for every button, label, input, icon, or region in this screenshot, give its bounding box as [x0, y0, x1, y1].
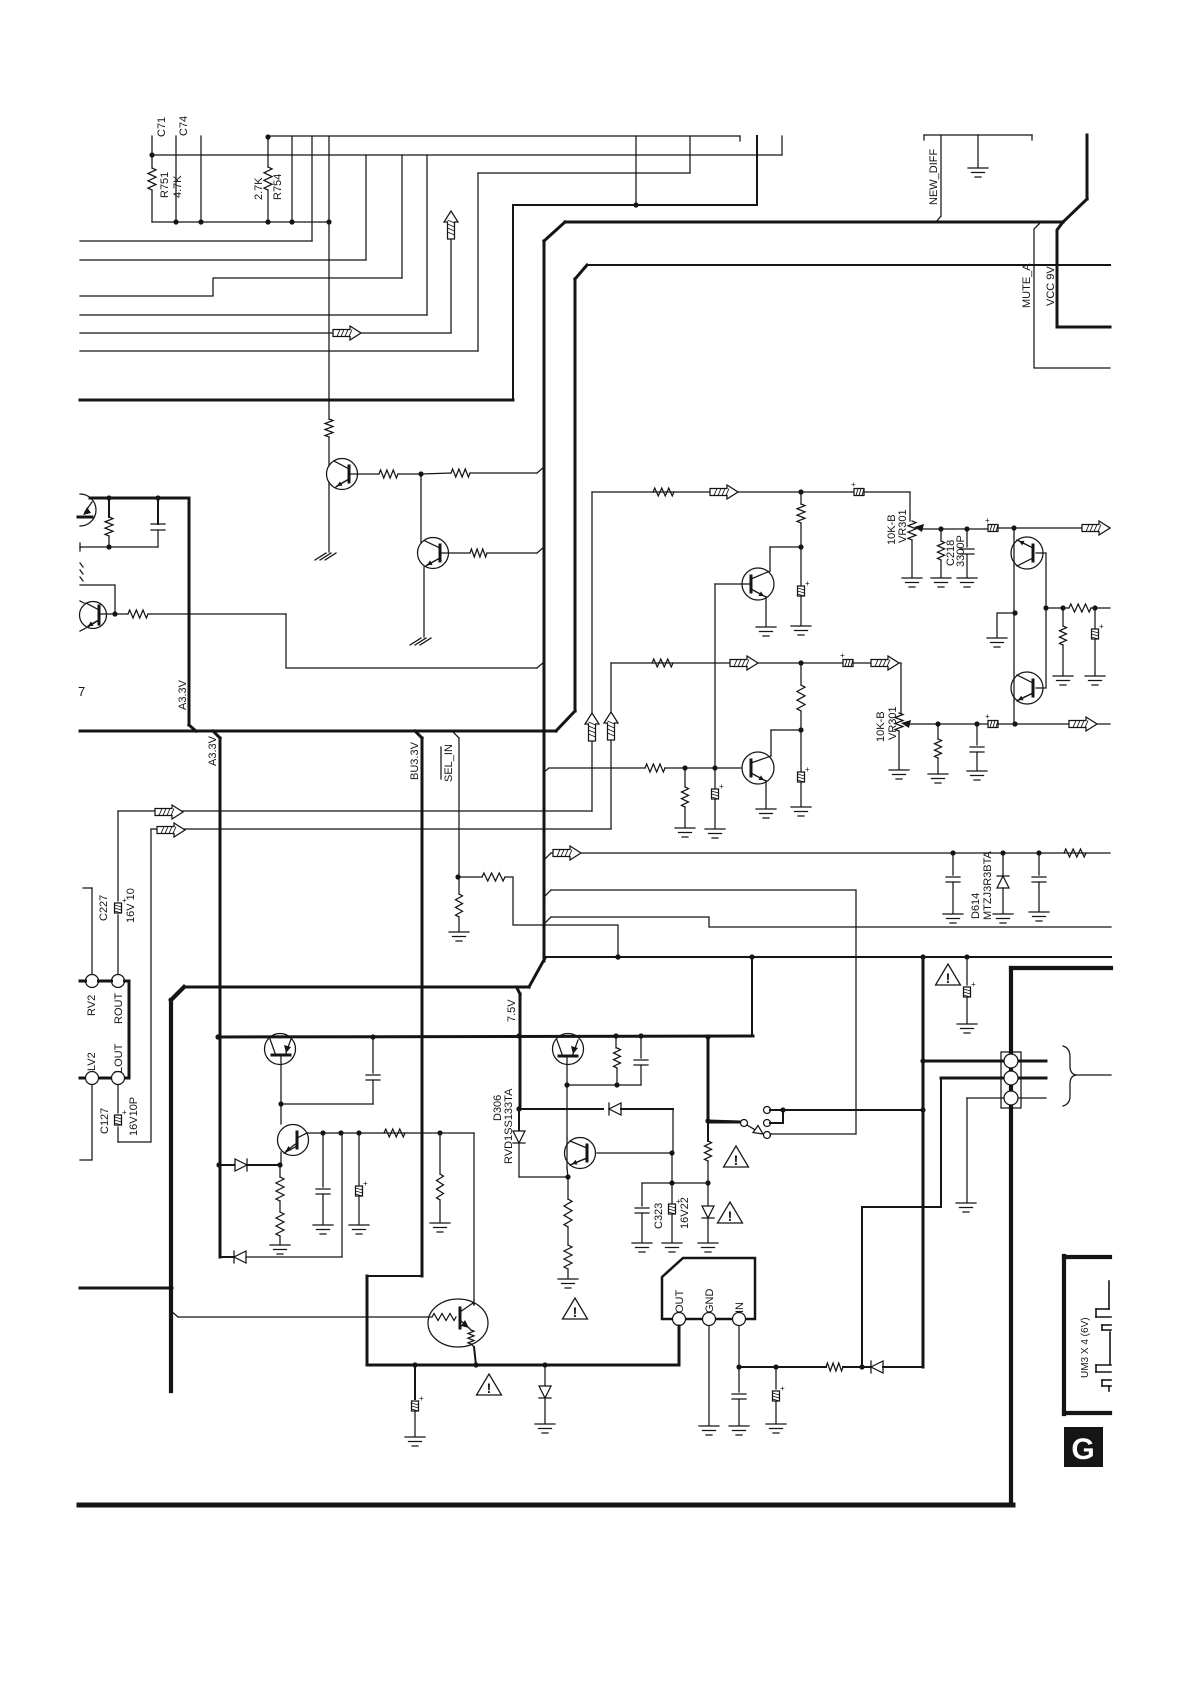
cap D614 group x953	[952, 853, 954, 875]
transistor pair vertical x1015	[1013, 528, 1015, 538]
svg-text:VR301: VR301	[897, 509, 909, 543]
ground at NEW_DIFF bar	[977, 135, 979, 168]
resistor above transistor x329	[325, 419, 333, 437]
resistor y1133	[384, 1129, 405, 1137]
wire SEL_IN from bus	[452, 731, 459, 738]
thick A3.3V bus horizontal y731	[80, 730, 556, 733]
resistor x709	[707, 1121, 709, 1141]
resistor x617	[615, 1036, 617, 1048]
wire vertical x451 with up arrow	[450, 240, 452, 333]
thick wire from top right x1087	[1086, 135, 1089, 199]
collector rail y1133	[307, 1132, 474, 1134]
emitter resistors x568	[567, 1177, 569, 1199]
pin LOUT	[112, 1072, 125, 1085]
voltage regulator IC	[662, 1258, 755, 1319]
thick diode feed y1257	[220, 1256, 234, 1258]
thick wire x367	[366, 1276, 369, 1365]
resistor at x109	[108, 498, 110, 517]
arrow output upper	[1014, 527, 1082, 529]
svg-text:A3.3V: A3.3V	[207, 735, 219, 766]
resistor R751 4.7K	[151, 155, 153, 168]
thick connector link y1078	[80, 1077, 86, 1080]
resistor chain2	[652, 659, 673, 667]
thick wire x709 down	[707, 1036, 710, 1121]
feedback wire y1085	[567, 1084, 641, 1086]
thick bus corner to x544	[544, 222, 565, 241]
bus horizontal y205	[513, 204, 757, 206]
cap to ground x977	[976, 724, 978, 745]
left bus horizontal y260	[80, 259, 366, 261]
svg-text:+: +	[805, 765, 810, 774]
wire x672 down	[671, 1153, 673, 1183]
pin GND	[703, 1313, 716, 1326]
thick wire x923	[922, 957, 925, 1367]
top bus area: capacitor lead C71x	[151, 136, 153, 155]
base wire y1153	[597, 1152, 672, 1154]
vertical x592 with up arrow	[591, 492, 593, 811]
svg-text:GND: GND	[704, 1289, 716, 1314]
transistor pass PNP a	[265, 1034, 296, 1065]
transistor PNP x293	[280, 1104, 282, 1124]
resistor R754 2.7K	[265, 134, 270, 139]
wire y173 to top	[478, 172, 690, 174]
svg-text:+: +	[122, 1108, 127, 1117]
top bus wire y136	[268, 135, 740, 137]
pin RV2	[83, 887, 92, 889]
capacitor at x158	[157, 498, 159, 524]
SEL_IN series resistor	[459, 876, 482, 878]
svg-text:3300P: 3300P	[955, 535, 967, 567]
wire GND to ground	[708, 1326, 710, 1425]
wire vertical x292	[291, 137, 293, 222]
svg-text:C74: C74	[178, 116, 190, 136]
signal wire y811 from C227 to chain1	[118, 810, 592, 812]
svg-text:!: !	[573, 1304, 578, 1320]
thick A3.3V vertical x220	[219, 738, 222, 1257]
transistor driver 1	[769, 547, 771, 571]
tap to transistor base y1317	[171, 1311, 178, 1317]
driver chain2: resistor x801	[800, 663, 802, 685]
cap x415	[414, 1365, 416, 1399]
chain1 wire y492	[592, 491, 910, 493]
feedback resistor y608	[1046, 607, 1063, 609]
cap x359	[358, 1133, 360, 1185]
cap x373	[372, 1037, 374, 1073]
arrow output lower	[1014, 723, 1069, 725]
transistor pass PNP b	[553, 1034, 584, 1065]
transistor driver 2	[770, 730, 772, 756]
svg-text:R754: R754	[272, 174, 284, 200]
svg-text:7.5V: 7.5V	[506, 999, 518, 1022]
chain2 wire y663	[611, 662, 901, 664]
resistor x440	[439, 1133, 441, 1174]
diode to ground x545	[544, 1365, 546, 1386]
cap x739	[738, 1367, 740, 1392]
warning mark A	[724, 1146, 749, 1167]
ground VR301 upper	[902, 577, 922, 579]
series resistor y1367	[826, 1363, 843, 1371]
wire MUTE_A	[1034, 223, 1110, 368]
coupling cap chain2	[840, 651, 853, 667]
svg-text:+: +	[851, 480, 856, 489]
wire NEW_DIFF vertical	[940, 135, 942, 216]
resistor to ground x938	[937, 724, 939, 739]
emitter ground driver1	[765, 597, 767, 626]
left bus horizontal y351	[80, 350, 478, 352]
thick rail y1036	[218, 1036, 753, 1037]
pin OUT	[673, 1313, 686, 1326]
emitter ground branch	[997, 613, 1015, 637]
thick frame right vertical x1011	[1009, 968, 1013, 1503]
driver chain1: resistor x801	[800, 492, 802, 504]
svg-text:10K-B: 10K-B	[875, 711, 887, 742]
thick wire VCC 9V	[1057, 222, 1110, 327]
svg-text:RV2: RV2	[86, 995, 98, 1016]
svg-text:VCC 9V: VCC 9V	[1045, 266, 1057, 306]
cap 3300P plates	[966, 529, 968, 547]
svg-text:+: +	[985, 516, 990, 525]
connector P pins	[1001, 1052, 1021, 1108]
cap to ground x1095	[1094, 608, 1096, 629]
resistor chain1	[653, 488, 674, 496]
bus tap wire y853 with arrow	[544, 853, 551, 860]
wire vertical x329	[328, 137, 330, 419]
vertical x611 with up arrow	[610, 663, 612, 829]
bypass cap x801 chain2	[800, 730, 802, 771]
VR301 lower 10K-B	[900, 663, 902, 713]
brace	[1063, 1046, 1076, 1106]
VR301 upper 10K-B	[909, 492, 911, 521]
resistor y853 right	[1064, 849, 1086, 857]
arrow chain1	[710, 485, 738, 499]
wire vertical x176	[175, 136, 177, 222]
svg-text:C323: C323	[653, 1203, 665, 1229]
transistor Q at x433	[420, 474, 422, 543]
bus tap wire y890 to switch	[544, 890, 551, 897]
coupling cap chain1	[851, 480, 864, 496]
svg-text:+: +	[840, 651, 845, 660]
svg-text:16V10P: 16V10P	[128, 1097, 140, 1136]
svg-text:!: !	[487, 1380, 492, 1396]
base coupling vertical x1046	[1036, 553, 1046, 688]
svg-text:+: +	[985, 712, 990, 721]
svg-text:+: +	[719, 782, 724, 791]
switch lever	[747, 1125, 757, 1131]
thick OUT rail y1365	[367, 1364, 679, 1367]
pin LV2	[86, 1072, 99, 1085]
svg-text:16V 10: 16V 10	[125, 888, 137, 923]
svg-text:C227: C227	[98, 895, 110, 921]
wiper wire y724	[909, 723, 990, 725]
collector riser x474	[473, 1133, 475, 1300]
arrow chain2 a	[730, 656, 758, 670]
zener D614 MTZJ3R3BTA	[1002, 853, 1004, 876]
svg-text:!: !	[728, 1208, 733, 1224]
svg-text:MUTE_A: MUTE_A	[1021, 263, 1033, 308]
svg-text:D614: D614	[970, 893, 982, 919]
thick wire y1207	[862, 1206, 941, 1208]
bus bottom wire y222	[152, 221, 329, 223]
cap x323	[322, 1133, 324, 1187]
svg-text:RVD1SS133TA: RVD1SS133TA	[503, 1088, 515, 1164]
capacitor C127	[117, 1085, 119, 1113]
wire from brace	[1076, 1074, 1111, 1076]
svg-text:+: +	[363, 1179, 368, 1188]
coupling cap output lower	[985, 712, 998, 728]
thick BU3.3V vertical x422	[421, 738, 424, 1276]
capacitor C227	[117, 811, 119, 901]
svg-text:R751: R751	[159, 172, 171, 198]
wire IN rail y1367	[738, 1326, 740, 1367]
wire y1276	[367, 1275, 422, 1277]
left bus horizontal y315	[80, 314, 427, 316]
warning mark B	[718, 1202, 743, 1223]
svg-text:LV2: LV2	[86, 1052, 98, 1071]
thick switch feed y1121	[708, 1121, 740, 1122]
svg-text:+: +	[1099, 622, 1104, 631]
left bus horizontal y333 with signal arrow	[80, 332, 451, 334]
wire LV2 down	[80, 1085, 92, 1160]
chassis ground at x329	[320, 553, 331, 560]
wire x342 up	[341, 1133, 343, 1257]
cap x642	[641, 1183, 643, 1206]
cap to ground x715	[714, 768, 716, 788]
pin wire 3	[967, 1097, 1046, 1099]
wire collector y547	[770, 546, 801, 548]
svg-text:G: G	[1071, 1433, 1094, 1466]
arrow chain2 b	[871, 656, 899, 670]
warning cap branch x967	[966, 957, 968, 985]
cap C323 16V22	[671, 1183, 673, 1203]
cap C218	[940, 529, 942, 541]
emitter wire down	[423, 567, 425, 637]
chassis ground at x424	[415, 638, 426, 645]
diode x709 to ground	[707, 1183, 709, 1206]
thick bus horizontal y400	[80, 399, 513, 402]
wire vertical x478	[477, 173, 479, 351]
diode D306 RVD1SS133TA	[518, 1109, 520, 1131]
transistor Q7xx lower left	[80, 602, 107, 629]
svg-text:16V22: 16V22	[679, 1197, 691, 1229]
transistor upper PNP	[1011, 537, 1043, 569]
transistor lower PNP	[1011, 672, 1043, 704]
thick wire x862 up	[861, 1207, 863, 1367]
left bus stepped wire y296/y278	[80, 278, 402, 296]
base wire from x715	[715, 583, 751, 585]
thick box left edge x171	[169, 1000, 173, 1391]
switch wiring	[770, 1109, 783, 1111]
bus tap wire y917/y927	[544, 917, 551, 924]
svg-text:IN: IN	[734, 1302, 746, 1313]
thick box corner top left	[171, 987, 184, 1000]
continuation dashes	[80, 563, 83, 567]
thick link vertical	[128, 981, 131, 1078]
svg-text:2.7K: 2.7K	[253, 177, 265, 200]
svg-text:LOUT: LOUT	[113, 1043, 125, 1073]
thick wire 7.5V x519	[517, 988, 520, 994]
svg-text:SEL_IN: SEL_IN	[443, 744, 455, 782]
svg-text:ROUT: ROUT	[113, 993, 125, 1024]
svg-text:NEW_DIFF: NEW_DIFF	[928, 149, 940, 206]
wire step x286 y668	[286, 614, 537, 668]
svg-text:+: +	[971, 980, 976, 989]
svg-text:C127: C127	[99, 1108, 111, 1134]
coupling cap to output	[985, 516, 998, 532]
battery holder UM3 X 4	[1062, 1256, 1066, 1414]
base resistor to bus	[440, 552, 470, 554]
wire vertical x201	[200, 136, 202, 222]
feedback wire y1104	[281, 1103, 373, 1105]
wire x752 rail to y957	[751, 957, 753, 1036]
svg-text:4.7K: 4.7K	[172, 175, 184, 198]
thick frame top edge y968	[1011, 966, 1111, 970]
wire collector y730	[771, 729, 801, 731]
diode feed y1165	[220, 1164, 235, 1166]
SEL_IN shunt resistor	[458, 877, 460, 894]
thick connector link y981	[80, 980, 86, 983]
bus horizontal y265	[587, 264, 1110, 266]
wire vertical x636	[635, 136, 637, 205]
wire y547	[80, 546, 158, 548]
wire vertical x427	[426, 155, 428, 315]
svg-text:VR301: VR301	[887, 706, 899, 740]
NEW_DIFF header bar	[924, 134, 1032, 136]
diode y1367	[871, 1361, 883, 1373]
svg-text:UM3 X 4 (6V): UM3 X 4 (6V)	[1080, 1317, 1091, 1378]
base wire y614 with resistor	[99, 613, 128, 615]
thick pin wire 1	[923, 1060, 1046, 1063]
svg-text:+: +	[805, 579, 810, 588]
cap x776	[775, 1367, 777, 1389]
wire vertical x312 to y241	[311, 137, 313, 241]
pin IN	[733, 1313, 746, 1326]
thick bottom border	[79, 1503, 1013, 1508]
cap x1039	[1038, 853, 1040, 875]
pin ROUT	[112, 975, 125, 988]
svg-text:OUT: OUT	[674, 1290, 686, 1314]
wire x715 to driver1 base	[714, 584, 716, 768]
bypass cap x801 chain1	[800, 547, 802, 586]
thick pin wire 2	[941, 1077, 1046, 1080]
emitter resistors x280	[279, 1165, 281, 1177]
thick bus vertical x544	[543, 241, 546, 961]
thick wire A3.3V vertical x189	[188, 498, 191, 725]
wire LOUT to x151	[118, 829, 151, 1142]
warning mark C	[563, 1298, 588, 1319]
thick bus horizontal y222	[565, 221, 1063, 224]
transistor Q7xx partial at left edge	[80, 494, 96, 526]
emitter wire to ground	[328, 482, 330, 552]
svg-text:A3.3V: A3.3V	[177, 679, 189, 710]
digital transistor Q	[428, 1299, 488, 1347]
wire y957 long	[545, 956, 1111, 958]
wire y1183	[642, 1182, 708, 1184]
resistor to ground x685	[684, 768, 686, 787]
wire vertical x782 end	[781, 136, 783, 155]
transistor reg driver	[566, 1085, 568, 1138]
svg-text:7: 7	[78, 684, 85, 699]
transistor Q at x342	[328, 437, 330, 466]
wire y585 to transistor base	[80, 585, 115, 614]
emitter ground driver2	[765, 781, 767, 808]
wire OUT to rail	[678, 1326, 681, 1365]
base resistor chain y474	[349, 473, 379, 475]
bus vertical x757	[756, 136, 758, 205]
wire vertical x366	[365, 155, 367, 260]
wire x941 connector pin2	[940, 1078, 942, 1207]
thick box top edge y987	[184, 986, 529, 989]
diode reverse y1109	[609, 1103, 621, 1115]
top bus wire y155	[152, 154, 782, 156]
battery cells	[1108, 1281, 1110, 1309]
cap x641	[640, 1036, 642, 1058]
thick stub y1288	[80, 1287, 171, 1290]
left bus horizontal y241	[80, 240, 312, 242]
base resistor chain y768	[544, 768, 549, 772]
warning mark E	[936, 964, 961, 985]
resistor to ground x1063	[1062, 608, 1064, 626]
svg-text:BU3.3V: BU3.3V	[409, 741, 421, 780]
emitter wire to wiper line	[1013, 701, 1015, 724]
warning mark D	[477, 1374, 502, 1395]
signal wire y829 to chain2	[151, 828, 611, 830]
wire vertical x402	[401, 155, 403, 278]
svg-text:MTZJ3R3BTA: MTZJ3R3BTA	[982, 850, 994, 920]
corner diag to y958	[529, 958, 545, 987]
thick wire y1109 with diode	[520, 1108, 603, 1110]
switch contacts	[709, 1121, 740, 1124]
svg-text:+: +	[419, 1394, 424, 1403]
svg-text:!: !	[946, 970, 951, 986]
bus vertical x575 with corners	[574, 279, 577, 711]
svg-text:!: !	[734, 1152, 739, 1168]
svg-text:C71: C71	[156, 117, 168, 137]
thick collector rail y498	[90, 497, 189, 500]
wire between pair	[1013, 566, 1015, 672]
bus vertical x513	[512, 206, 514, 400]
svg-text:+: +	[780, 1384, 785, 1393]
wiper wire y529	[922, 528, 990, 530]
sheet label G	[1064, 1427, 1103, 1467]
